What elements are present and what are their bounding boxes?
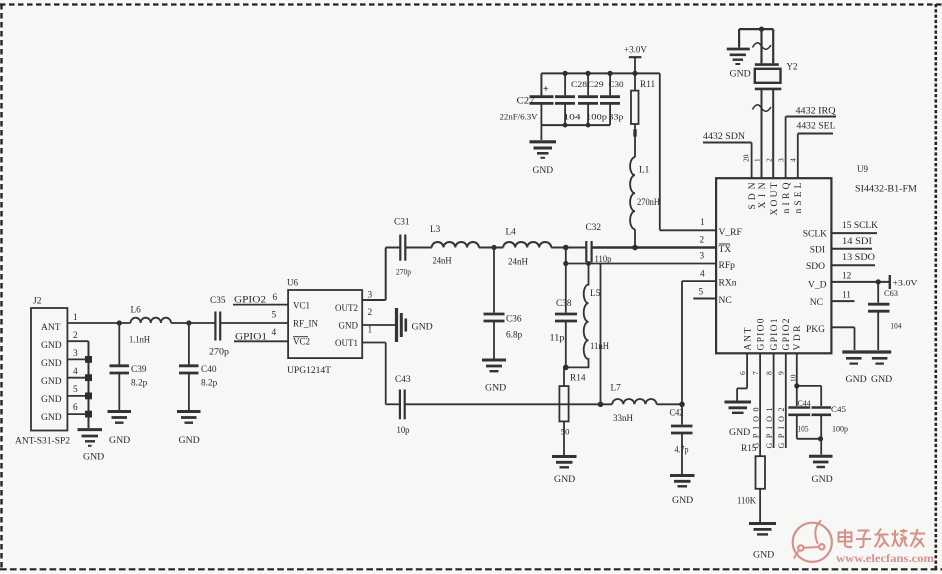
net label GPIO2: [233, 296, 288, 306]
svg-text:GND: GND: [812, 474, 833, 485]
svg-text:C45: C45: [831, 405, 846, 414]
wire ANT pin6 to ground: [737, 353, 747, 400]
ground symbol at C42: [670, 476, 695, 507]
svg-text:OUT1: OUT1: [335, 338, 358, 348]
svg-text:V_D: V_D: [808, 281, 827, 291]
svg-text:GND: GND: [41, 395, 62, 405]
svg-text:270p: 270p: [396, 268, 411, 277]
svg-text:GND: GND: [554, 474, 575, 485]
ground symbol at R15: [749, 524, 776, 561]
svg-text:V_RF: V_RF: [719, 228, 742, 238]
svg-text:nSEL: nSEL: [794, 182, 804, 213]
svg-text:12: 12: [842, 271, 852, 281]
svg-text:C27: C27: [517, 97, 535, 107]
svg-text:GND: GND: [339, 321, 359, 331]
svg-text:GND: GND: [41, 359, 62, 369]
svg-text:GND: GND: [41, 413, 62, 423]
ground symbol at C40: [177, 412, 201, 447]
node junction crystal top: [759, 27, 764, 32]
svg-text:Y2: Y2: [787, 62, 798, 72]
svg-text:2: 2: [700, 236, 705, 246]
svg-text:+: +: [543, 84, 549, 95]
svg-text:5: 5: [272, 311, 277, 321]
IC U9 SI4432-B1-FM: [716, 164, 917, 353]
net label 14 SDI: [831, 237, 872, 249]
svg-text:L3: L3: [430, 225, 441, 235]
capacitor C35: [209, 296, 230, 357]
svg-text:GND: GND: [871, 374, 892, 385]
capacitor C31: [394, 218, 411, 277]
svg-text:C36: C36: [506, 315, 522, 325]
watermark char fa: [875, 529, 890, 548]
svg-text:6: 6: [273, 293, 278, 303]
svg-text:C31: C31: [394, 218, 410, 228]
svg-text:C44: C44: [798, 399, 811, 408]
svg-text:SDO: SDO: [806, 262, 825, 272]
svg-text:R14: R14: [570, 374, 586, 384]
TX overline: [719, 243, 730, 245]
svg-text:8: 8: [764, 371, 773, 375]
svg-text:XIN: XIN: [758, 182, 768, 208]
svg-text:4: 4: [73, 367, 78, 377]
svg-text:L5: L5: [590, 289, 601, 299]
capacitor C30: [600, 73, 624, 125]
svg-text:33nH: 33nH: [613, 414, 633, 424]
svg-text:C39: C39: [131, 365, 147, 375]
svg-text:110K: 110K: [737, 497, 756, 507]
node junction C44/C45: [818, 436, 823, 441]
svg-text:C38: C38: [556, 299, 572, 309]
svg-text:4: 4: [788, 158, 797, 162]
watermark char zi: [856, 531, 871, 548]
svg-text:C40: C40: [201, 365, 217, 375]
svg-text:GPIO2: GPIO2: [782, 318, 792, 350]
svg-text:13 SDO: 13 SDO: [842, 253, 875, 263]
node junctions on bottom bus: [563, 123, 591, 128]
wire C44/C45 bottoms join: [797, 439, 821, 455]
node junction at L4/C32: [563, 245, 569, 251]
svg-text:C32: C32: [586, 223, 602, 233]
wire U6 GND pin to ground: [362, 324, 395, 326]
svg-text:2: 2: [73, 331, 78, 341]
svg-text:1: 1: [368, 326, 373, 336]
ground symbol at ANT pin: [725, 402, 752, 438]
wire GPIO0 pin7 to R15: [759, 353, 761, 456]
svg-text:PKG: PKG: [806, 325, 825, 335]
svg-text:J2: J2: [33, 297, 42, 307]
capacitor C38: [550, 264, 578, 368]
capacitor C28: [555, 73, 587, 125]
svg-text:24nH: 24nH: [508, 258, 528, 268]
svg-text:RXn: RXn: [719, 279, 737, 289]
svg-text:1: 1: [753, 158, 762, 162]
svg-text:2: 2: [765, 158, 774, 162]
svg-text:RFp: RFp: [719, 261, 736, 271]
svg-text:GND: GND: [109, 435, 130, 446]
resistor R15: [737, 444, 765, 522]
wire riser RXp line down to bottom line: [600, 264, 602, 405]
svg-text:nIRQ: nIRQ: [782, 182, 792, 213]
svg-text:SI4432-B1-FM: SI4432-B1-FM: [855, 185, 917, 195]
svg-text:GND: GND: [753, 550, 774, 561]
node junction RFp riser at L7: [598, 402, 604, 408]
svg-text:L6: L6: [131, 306, 142, 316]
net label 4432 IRQ: [786, 107, 836, 179]
U9 left pin numbers: [699, 218, 706, 298]
svg-text:104: 104: [564, 113, 581, 122]
svg-text:OUT2: OUT2: [335, 303, 358, 313]
svg-text:GPIO0: GPIO0: [757, 318, 767, 350]
svg-text:NC: NC: [810, 298, 823, 308]
wire branch down to RXp line: [565, 248, 567, 264]
resistor R11: [631, 73, 656, 157]
capacitor C32: [586, 223, 612, 265]
U9 bottom rotated labels: [744, 318, 804, 350]
svg-text:1.1nH: 1.1nH: [129, 336, 150, 346]
svg-text:RF_IN: RF_IN: [293, 319, 319, 329]
U9 NC pin5 stub: [693, 298, 716, 300]
wire L7 to C42 node: [657, 403, 682, 405]
svg-text:GND: GND: [533, 166, 554, 176]
svg-text:SDI: SDI: [810, 246, 825, 256]
inductor L7: [611, 384, 657, 425]
svg-text:20: 20: [742, 154, 751, 162]
node junction at C39 tap: [117, 320, 122, 325]
U9 NC pin 11 stub: [831, 291, 854, 302]
wire J2 pin stubs 2-6 to ground bus: [67, 341, 88, 414]
U9 left pin labels: [719, 228, 742, 306]
svg-text:C42: C42: [670, 409, 684, 419]
svg-text:C28: C28: [571, 80, 587, 89]
svg-text:U6: U6: [287, 278, 298, 288]
svg-text:+3.0V: +3.0V: [624, 45, 647, 55]
svg-text:www.elecfans.com: www.elecfans.com: [836, 552, 934, 565]
node junction VDR branch: [794, 383, 799, 388]
inductor L3: [430, 225, 479, 267]
wire bottom line C43 to L7: [386, 403, 613, 405]
svg-text:4: 4: [700, 270, 705, 280]
svg-text:6: 6: [738, 371, 747, 375]
wire top matching line segments: [386, 247, 716, 249]
svg-text:4432 SEL: 4432 SEL: [797, 122, 836, 132]
capacitor C43: [395, 375, 411, 436]
svg-text:3: 3: [777, 158, 786, 162]
J2 pin numbers 1-6: [73, 313, 78, 413]
U9 right pin labels: [803, 230, 827, 336]
node junction C38/L5 bottom: [563, 365, 569, 371]
svg-text:14 SDI: 14 SDI: [842, 237, 872, 247]
capacitor C27 electrolytic: [500, 84, 554, 125]
svg-text:C35: C35: [210, 296, 226, 306]
svg-text:ANT: ANT: [41, 323, 61, 333]
wire riser C42 node to U9 pin4: [682, 281, 716, 404]
U6 pin numbers 6 5 4: [272, 293, 278, 338]
net label 4432 SEL: [797, 122, 836, 179]
capacitor C39: [110, 323, 148, 410]
svg-text:C63: C63: [884, 289, 898, 298]
svg-text:GND: GND: [730, 69, 751, 80]
svg-text:1: 1: [700, 218, 705, 228]
ground symbol at C45: [809, 456, 833, 485]
svg-text:11: 11: [842, 291, 851, 301]
capacitor C42: [670, 404, 693, 474]
svg-text:GND: GND: [41, 377, 62, 387]
wire +3.0V rail: [541, 73, 659, 95]
wire crystal top bar: [739, 29, 773, 63]
svg-text:GPIO1: GPIO1: [770, 318, 780, 350]
wire bus to ground: [540, 125, 542, 140]
ground symbol below C27: [530, 142, 557, 176]
watermark elecfans logo: [793, 521, 935, 566]
svg-text:GND: GND: [41, 341, 62, 351]
U9 bottom pin numbers rotated: [738, 371, 798, 382]
wire GPIO2 pin9 stub: [785, 353, 787, 448]
crossing squiggle upper: [753, 43, 772, 49]
capacitor C45: [812, 405, 849, 439]
node junctions on rail: [563, 71, 638, 76]
op-amp/switch U6 UPG1214T: [287, 278, 362, 376]
capacitor C44: [788, 399, 810, 439]
inductor L4: [503, 228, 551, 268]
ground symbol sideways at U6 pin2: [397, 308, 433, 342]
watermark char shao: [892, 529, 908, 547]
node junction L1 on TX line: [632, 245, 638, 251]
svg-text:NC: NC: [719, 296, 732, 306]
U9 top rotated labels: [748, 182, 804, 215]
svg-text:4: 4: [272, 328, 277, 338]
capacitor C29: [578, 73, 607, 125]
junction squares on bus: [85, 356, 92, 418]
wire GPIO1 pin8 stub: [773, 353, 775, 448]
svg-text:VDR: VDR: [793, 325, 803, 351]
power +3.0V at V_D: [890, 275, 918, 289]
svg-text:GND: GND: [412, 322, 433, 333]
svg-text:2: 2: [368, 308, 373, 318]
svg-text:10p: 10p: [397, 426, 410, 436]
inductor L6: [129, 306, 171, 346]
net label 13 SDO: [831, 253, 875, 265]
svg-text:100p: 100p: [832, 425, 848, 434]
svg-text:50: 50: [561, 428, 570, 437]
svg-text:24nH: 24nH: [433, 257, 452, 267]
svg-text:3: 3: [700, 252, 705, 262]
ground symbol at R14: [552, 457, 577, 486]
wire U6 OUT2 to C31 riser: [362, 248, 386, 301]
U6 pin numbers 3 2 1: [368, 291, 373, 336]
svg-text:270nH: 270nH: [637, 198, 660, 208]
svg-text:5: 5: [699, 288, 704, 298]
svg-text:GND: GND: [729, 427, 750, 438]
power +3.0V: [624, 45, 647, 74]
svg-text:15 SCLK: 15 SCLK: [842, 221, 878, 231]
svg-text:TX: TX: [719, 245, 732, 255]
svg-text:270p: 270p: [209, 347, 230, 357]
svg-text:ANT: ANT: [744, 327, 754, 350]
node junction at C42: [679, 402, 685, 408]
wire VDR pin10 to C44/C45: [797, 353, 821, 406]
capacitor C40: [179, 323, 218, 410]
svg-text:104: 104: [891, 322, 902, 331]
svg-text:ANT-S31-SP2: ANT-S31-SP2: [15, 436, 70, 446]
node junction on RXp line: [563, 261, 568, 266]
svg-text:GND: GND: [846, 374, 867, 385]
svg-text:VC1: VC1: [293, 301, 310, 311]
svg-text:C43: C43: [395, 375, 411, 385]
svg-text:C29: C29: [588, 80, 604, 89]
svg-text:GND: GND: [179, 435, 200, 446]
svg-text:UPG1214T: UPG1214T: [287, 365, 332, 375]
node junction at C40 tap: [186, 320, 191, 325]
connector J2: [15, 297, 70, 446]
node junction C36 tap: [491, 245, 496, 250]
wire PKG to ground: [831, 327, 854, 350]
svg-text:GND: GND: [672, 495, 693, 506]
watermark char you: [910, 529, 925, 548]
wire ground bus vertical: [88, 341, 90, 428]
svg-text:C30: C30: [609, 80, 624, 89]
svg-text:R15: R15: [741, 444, 757, 454]
svg-text:6.8p: 6.8p: [506, 331, 523, 341]
crossing squiggle lower: [753, 105, 772, 111]
svg-text:33p: 33p: [609, 113, 624, 122]
capacitor C36: [484, 248, 523, 359]
U9 top pin numbers rotated: [742, 154, 798, 162]
net label GPIO1: [234, 333, 288, 343]
svg-text:GND: GND: [485, 383, 506, 394]
node junction at C63: [876, 279, 881, 284]
ground symbol at C36: [482, 360, 506, 394]
svg-text:22nF/6.3V: 22nF/6.3V: [500, 113, 538, 122]
svg-text:U9: U9: [857, 164, 868, 174]
svg-text:R11: R11: [640, 80, 656, 90]
resistor R14: [559, 367, 585, 455]
wire rail down to U9 V_RF pin1: [660, 73, 716, 230]
svg-text:+3.0V: +3.0V: [893, 279, 918, 288]
capacitor C63: [868, 282, 902, 350]
svg-text:5: 5: [73, 385, 78, 395]
wire V_D pin 12 to +3.0V: [831, 271, 889, 282]
svg-text:GND: GND: [83, 452, 104, 463]
ground symbol at crystal: [727, 49, 751, 80]
inductor L1: [630, 157, 660, 247]
svg-text:3: 3: [73, 349, 78, 359]
svg-text:VC2: VC2: [293, 337, 310, 347]
net label 15 SCLK: [831, 221, 878, 233]
svg-text:4432 IRQ: 4432 IRQ: [796, 107, 836, 117]
svg-text:100p: 100p: [586, 113, 607, 122]
svg-text:8.2p: 8.2p: [131, 379, 148, 389]
svg-text:8.2p: 8.2p: [201, 379, 218, 389]
inductor L5: [566, 264, 609, 368]
wire RXp line to U9 pin3: [566, 263, 716, 265]
crystal Y2: [755, 62, 798, 89]
wire crystal to XIN XOUT: [762, 89, 774, 178]
watermark char dian: [839, 529, 853, 547]
ground symbol below bus: [78, 430, 105, 463]
svg-text:7: 7: [751, 371, 760, 375]
wire U6 OUT1 down to C43: [362, 343, 386, 405]
svg-text:SCLK: SCLK: [803, 230, 827, 240]
ground symbol pair below PKG/C63: [842, 352, 892, 385]
svg-text:11p: 11p: [550, 334, 565, 344]
svg-text:6: 6: [73, 403, 78, 413]
svg-text:105: 105: [798, 425, 809, 434]
svg-text:L4: L4: [506, 228, 517, 238]
ground symbol at C39: [108, 412, 132, 447]
svg-text:1: 1: [73, 313, 78, 323]
wire ANT pin1 to C35: [67, 322, 288, 324]
net label 4432 SDN: [703, 132, 752, 178]
svg-text:L1: L1: [639, 166, 650, 176]
svg-text:SDN: SDN: [748, 182, 758, 209]
svg-text:L7: L7: [611, 384, 622, 394]
node junction L5 top: [586, 261, 591, 266]
svg-text:4432 SDN: 4432 SDN: [703, 132, 745, 142]
wire cap bottom bus: [541, 124, 610, 126]
svg-text:4.7p: 4.7p: [675, 446, 689, 456]
svg-text:9: 9: [777, 371, 786, 375]
